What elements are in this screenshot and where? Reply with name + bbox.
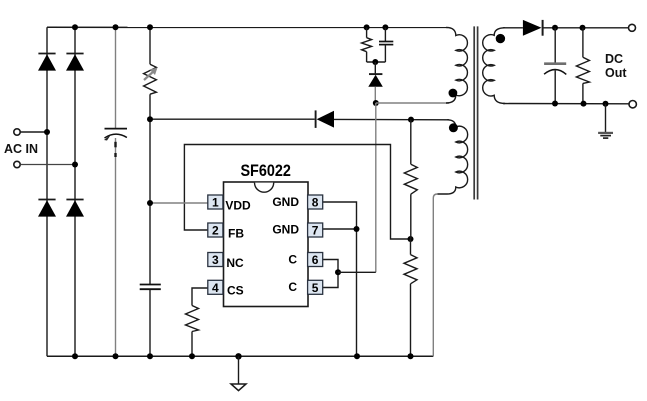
node junction rail x=356.5 xyxy=(354,353,360,359)
node junction output cap bottom xyxy=(552,101,558,107)
svg-text:GND: GND xyxy=(272,223,299,237)
wire pin5 C lead xyxy=(323,272,339,287)
wire AC bottom lead xyxy=(20,164,75,166)
wire vdd rectifier net y=119 xyxy=(150,118,315,120)
node junction output res bottom xyxy=(581,101,587,107)
svg-text:DC: DC xyxy=(605,52,623,66)
node junction output cap top xyxy=(552,25,558,31)
node junction on top rail x=150 xyxy=(147,24,153,30)
svg-text:3: 3 xyxy=(212,253,219,267)
node junction drain/primary xyxy=(373,100,379,106)
capacitor C4 output electrolytic xyxy=(544,28,566,104)
terminal DC out plus xyxy=(629,24,636,31)
pin 5 box xyxy=(308,280,323,295)
node junction snubber xyxy=(372,59,378,65)
svg-text:Out: Out xyxy=(605,66,627,80)
terminal AC top xyxy=(14,129,20,135)
pin 1 box xyxy=(208,195,223,210)
diode D3 bridge lower-left xyxy=(38,200,56,217)
wire FB loop xyxy=(184,145,410,240)
node junction R1/D5 xyxy=(147,116,153,122)
node junction divider top xyxy=(408,117,414,123)
wire output top xyxy=(543,27,629,29)
node junction GND pins xyxy=(354,226,360,232)
svg-text:C: C xyxy=(288,252,297,266)
resistor R4 divider upper xyxy=(404,120,417,239)
terminal DC out minus xyxy=(629,101,636,108)
ground symbol signal (open triangle) xyxy=(231,356,246,390)
node junction VDD xyxy=(147,200,153,206)
transformer T1 aux winding xyxy=(437,120,467,194)
node junction rail x=115.5 xyxy=(113,353,119,359)
node junction AC-L xyxy=(44,129,50,135)
pin 7 box xyxy=(308,223,323,238)
node primary polarity dot xyxy=(449,89,458,98)
wire AC top lead xyxy=(20,131,47,133)
node secondary polarity dot xyxy=(496,34,505,43)
svg-text:SF6022: SF6022 xyxy=(240,162,291,180)
resistor R5 divider lower xyxy=(404,239,417,356)
pin 6 box xyxy=(308,253,323,268)
wire pin4 CS lead xyxy=(192,288,208,306)
diode D1 bridge upper-left xyxy=(38,54,56,71)
node junction on top rail x=75 xyxy=(72,24,78,30)
pin 4 box xyxy=(208,280,223,295)
node junction output res top xyxy=(580,25,586,31)
wire right bridge leg x=75 xyxy=(74,27,76,356)
wire primary bottom y=103 xyxy=(376,102,449,104)
svg-text:FB: FB xyxy=(228,226,244,240)
diode D4 bridge lower-right xyxy=(66,200,84,217)
diode D5 vdd rectifier xyxy=(316,110,334,128)
IC notch xyxy=(255,183,274,193)
wire pin1 VDD lead xyxy=(150,202,208,204)
svg-text:1: 1 xyxy=(212,196,219,210)
IC U1 SF6022 body xyxy=(224,182,309,307)
ground earth symbol output xyxy=(598,104,613,138)
wire snubber join y=62 xyxy=(367,61,386,63)
svg-text:5: 5 xyxy=(312,281,319,295)
node junction on top rail x=115.5 xyxy=(113,24,119,30)
transformer core xyxy=(474,26,477,199)
wire secondary top y=27.8 xyxy=(503,27,523,29)
diode D7 output rectifier xyxy=(523,20,543,36)
node junction output gnd tap xyxy=(603,101,609,107)
node junction C pins xyxy=(335,269,341,275)
svg-text:CS: CS xyxy=(227,284,244,298)
svg-text:AC IN: AC IN xyxy=(4,142,38,156)
resistor R2 snubber xyxy=(362,27,372,62)
wire pin7 GND lead xyxy=(323,228,357,230)
svg-text:8: 8 xyxy=(312,196,319,210)
terminal AC bottom xyxy=(14,161,20,167)
svg-text:NC: NC xyxy=(226,256,244,270)
pin 2 box xyxy=(208,223,223,238)
resistor R6 current sense xyxy=(186,306,199,357)
node junction rail gnd symbol xyxy=(235,353,241,359)
svg-text:C: C xyxy=(288,280,297,294)
wire bottom ground rail xyxy=(47,355,433,357)
svg-text:4: 4 xyxy=(212,281,219,295)
wire VDD branch x=150 xyxy=(149,27,151,64)
node junction rail x=150 xyxy=(147,353,153,359)
svg-text:2: 2 xyxy=(212,224,219,238)
node junction on top rail snubber C xyxy=(382,24,388,30)
svg-text:7: 7 xyxy=(312,224,319,238)
wire top rail xyxy=(47,26,448,28)
wire aux return to rail xyxy=(433,194,437,356)
resistor R1 startup (with grey arrow) xyxy=(144,64,158,94)
pin 8 box xyxy=(308,195,323,210)
capacitor C1 bulk electrolytic xyxy=(104,129,127,141)
wire pin8 GND lead xyxy=(323,202,357,356)
wire left bridge leg x=47 xyxy=(46,27,48,356)
node junction on top rail snubber R xyxy=(364,24,370,30)
node junction FB divider xyxy=(408,236,414,242)
pin 3 box xyxy=(208,253,223,268)
svg-text:GND: GND xyxy=(272,195,299,209)
diode D2 bridge upper-right xyxy=(66,54,84,71)
node aux polarity dot xyxy=(449,123,458,132)
node junction rail x=75 xyxy=(72,353,78,359)
capacitor C3 snubber xyxy=(379,27,393,62)
node junction rail x=410.5 xyxy=(408,353,414,359)
diode D6 snubber clamp xyxy=(368,62,383,103)
wire C pins to drain xyxy=(338,271,376,273)
wire pin6 C lead xyxy=(323,260,339,273)
wire drain vertical x=376 xyxy=(375,103,377,272)
node junction AC-N xyxy=(72,162,78,168)
wire secondary bottom y=103.5 xyxy=(503,103,629,105)
node junction rail x=192 xyxy=(189,353,195,359)
svg-text:VDD: VDD xyxy=(225,199,251,213)
svg-text:6: 6 xyxy=(312,253,319,267)
wire bulk cap branch x=115.5 xyxy=(115,27,117,128)
transformer T1 secondary winding xyxy=(483,28,505,104)
resistor R3 output load xyxy=(576,28,589,104)
transformer T1 primary winding xyxy=(446,27,467,103)
capacitor C2 vdd xyxy=(140,285,161,290)
wire tick marks on bulk cap line xyxy=(114,142,116,148)
